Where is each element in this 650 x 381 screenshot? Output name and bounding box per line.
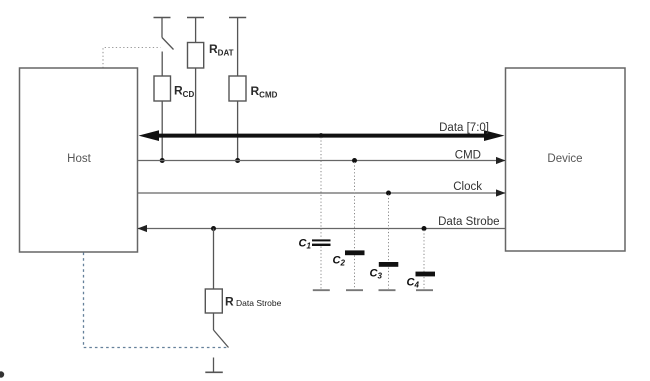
wire from VDD3 down to R_CMD <box>237 18 239 77</box>
wire from VDD1 down to switch <box>161 18 163 38</box>
svg-text:Host: Host <box>67 153 91 165</box>
capacitor C3 plate <box>379 262 399 267</box>
ground bar under C2 <box>346 289 363 291</box>
Data Strobe line <box>138 228 506 230</box>
Device box <box>506 68 626 251</box>
CMD right arrowhead <box>496 157 506 164</box>
svg-text:R: R <box>225 295 234 309</box>
Host box <box>20 68 138 252</box>
dotted stub from C4 to ground <box>423 277 425 289</box>
dotted stub from Data bus to C1 <box>320 137 322 239</box>
wire from Data Strobe down to R Data Strobe <box>213 229 215 290</box>
dotted stub from C1 to ground <box>320 247 322 289</box>
Clock line <box>138 192 506 194</box>
Clock right arrowhead <box>496 189 506 196</box>
svg-text:CMD: CMD <box>455 150 481 162</box>
svg-text:RCMD: RCMD <box>251 84 278 99</box>
dotted stub from Data Strobe to C4 <box>423 230 425 272</box>
junction dot Data Strobe / R Data Strobe <box>211 226 216 231</box>
dotted stub from CMD to C2 <box>354 162 356 250</box>
svg-text:Clock: Clock <box>453 181 482 193</box>
dotted stub from Clock to C3 <box>388 195 390 263</box>
switch S1 blade (open, for R_CD) <box>162 38 174 50</box>
ground stub wire <box>213 358 215 373</box>
power rail bar VDD3 (above R_CMD) <box>229 17 246 19</box>
svg-text:RDAT: RDAT <box>209 42 234 57</box>
svg-text:C3: C3 <box>370 268 383 281</box>
ground bar under C4 <box>416 289 433 291</box>
resistor R_CD body <box>154 76 171 101</box>
power rail bar VDD1 (above R_CD switch) <box>154 17 171 19</box>
wire from R_CD down to CMD line <box>161 101 163 161</box>
blue dashed control line from Host to switch S2 <box>84 253 228 348</box>
junction dot Data Strobe / C4 stub <box>422 226 427 231</box>
svg-text:RCD: RCD <box>174 84 194 99</box>
ground bar under C3 <box>379 289 396 291</box>
junction dot Clock / C3 stub <box>386 191 391 196</box>
svg-text:Data Strobe: Data Strobe <box>438 216 499 228</box>
CMD line <box>138 160 506 162</box>
junction dot CMD / C2 stub <box>352 158 357 163</box>
svg-text:C2: C2 <box>333 255 346 268</box>
junction dot Data bus / C1 stub <box>319 133 324 138</box>
dotted stub from C2 to ground <box>354 256 356 289</box>
Data bus left arrowhead <box>139 130 160 141</box>
wire from R_CMD down to CMD line <box>237 101 239 161</box>
junction dot R_CMD / CMD <box>235 158 240 163</box>
wire from R_DAT down to Data bus <box>195 68 197 136</box>
capacitor C4 plate <box>416 272 436 277</box>
svg-text:C4: C4 <box>407 277 420 290</box>
capacitor C1 bottom plate <box>312 244 331 246</box>
svg-text:Device: Device <box>547 153 582 165</box>
dotted stub from C3 to ground <box>388 268 390 289</box>
power rail bar VDD2 (above R_DAT) <box>187 17 204 19</box>
wire from switch to R_CD <box>161 52 163 77</box>
resistor R_CMD body <box>229 76 246 101</box>
resistor R Data Strobe body <box>205 289 222 313</box>
wire from VDD2 down to R_DAT <box>195 18 197 43</box>
wire from R Data Strobe down to switch <box>213 313 215 330</box>
capacitor C1 top plate <box>312 239 331 241</box>
ground bar under C1 <box>313 289 330 291</box>
svg-text:Data [7:0]: Data [7:0] <box>439 122 489 134</box>
junction dot R_CD / CMD <box>160 158 165 163</box>
Data [7:0] bus line (thick, bidirectional) <box>152 134 491 138</box>
Data Strobe left arrowhead <box>138 225 148 232</box>
switch S2 blade (open, below R Data Strobe) <box>214 330 229 348</box>
resistor R_DAT body <box>188 43 204 69</box>
Data bus right arrowhead <box>484 130 505 141</box>
ground bar <box>205 371 223 373</box>
stray mark bottom-left corner <box>0 371 4 377</box>
svg-text:Data Strobe: Data Strobe <box>236 298 282 308</box>
dotted control line from Host to switch S1 <box>103 48 161 69</box>
svg-text:C1: C1 <box>299 238 312 251</box>
capacitor C2 plate <box>345 250 365 255</box>
